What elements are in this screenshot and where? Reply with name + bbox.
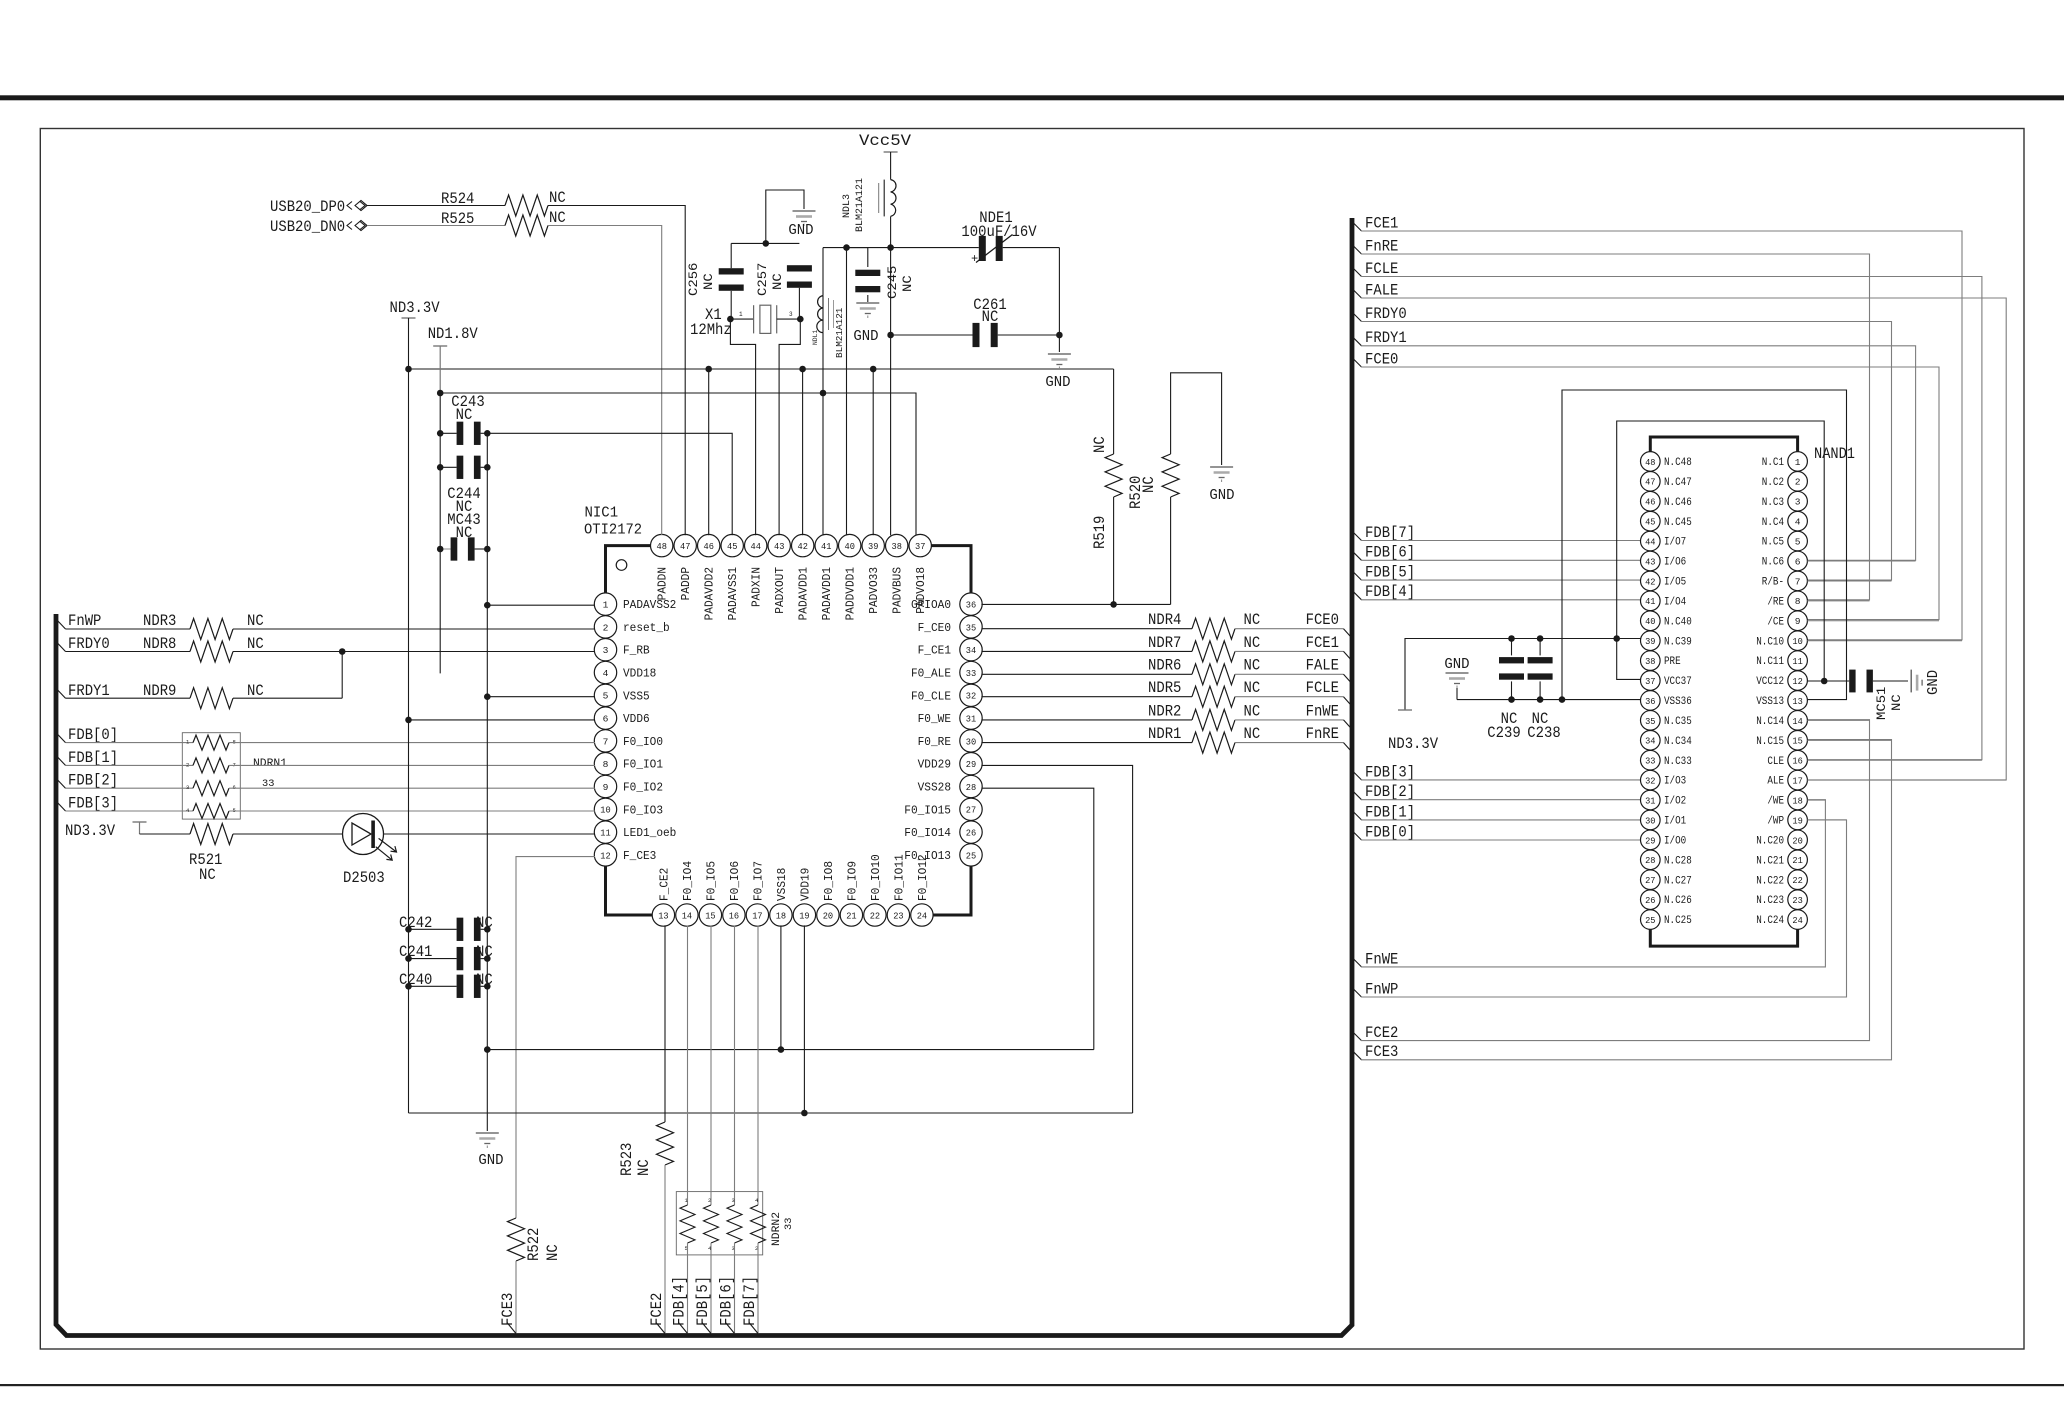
- svg-text:7: 7: [603, 736, 609, 747]
- wire NDR9 out: [233, 697, 342, 699]
- svg-text:NDR1: NDR1: [1148, 725, 1181, 743]
- wire ND3.3V vertical trunk: [408, 318, 410, 1113]
- net FRDY0 stub: [1352, 312, 1362, 322]
- svg-text:47: 47: [680, 541, 690, 552]
- net FDB[5] vertical wire: [710, 1243, 712, 1334]
- node VSS loop tap: [1559, 696, 1566, 703]
- net FDB[3] stub right: [1352, 770, 1362, 780]
- svg-text:NDR3: NDR3: [143, 612, 176, 630]
- svg-text:F0_IO14: F0_IO14: [904, 826, 951, 840]
- svg-text:26: 26: [1645, 895, 1656, 906]
- node ND1.8V rail tap: [437, 390, 444, 397]
- svg-text:NC: NC: [247, 682, 264, 700]
- svg-text:NC: NC: [1244, 657, 1261, 675]
- wire C257 bottom: [798, 288, 800, 319]
- LED D2503: [343, 814, 384, 855]
- svg-text:ND3.3V: ND3.3V: [1388, 735, 1439, 753]
- wire ND1.8V cap chain: [439, 393, 441, 673]
- wire FDB[0] to NAND: [1361, 839, 1641, 841]
- net FCE0 bus whisker: [1344, 629, 1353, 639]
- pin 20 N.C20: [1788, 830, 1808, 850]
- pin 42 PADAVDD1: [792, 534, 814, 556]
- svg-text:FDB[2]: FDB[2]: [1365, 783, 1415, 801]
- svg-text:3: 3: [789, 311, 793, 318]
- net FDB[0] stub right: [1352, 831, 1362, 841]
- svg-text:N.C28: N.C28: [1664, 855, 1692, 867]
- svg-text:32: 32: [966, 691, 977, 702]
- wire pin18 VSS18 down: [780, 925, 782, 1049]
- svg-text:F0_RE: F0_RE: [918, 735, 951, 749]
- pin 6 N.C6: [1788, 551, 1808, 571]
- net FRDY0 stub: [56, 642, 66, 652]
- wire FRDY1 loop to NAND: [1361, 346, 1916, 561]
- svg-text:FALE: FALE: [1306, 657, 1339, 675]
- svg-text:PADAVDD1: PADAVDD1: [820, 567, 834, 620]
- svg-text:FCLE: FCLE: [1365, 260, 1398, 278]
- svg-text:FDB[5]: FDB[5]: [694, 1276, 712, 1326]
- svg-text:N.C21: N.C21: [1756, 855, 1784, 867]
- svg-text:F0_IO3: F0_IO3: [623, 803, 663, 817]
- svg-text:N.C27: N.C27: [1664, 875, 1692, 887]
- capacitor C239: [1511, 639, 1513, 656]
- net FDB[6] vertical wire: [734, 1243, 736, 1334]
- node crystal pin3: [797, 316, 804, 323]
- svg-text:VSS13: VSS13: [1756, 696, 1784, 708]
- svg-text:FnWP: FnWP: [68, 612, 101, 630]
- net FCE1 stub: [1352, 222, 1362, 232]
- pin 35 F_CE0: [960, 616, 982, 638]
- pin 2 N.C2: [1788, 472, 1808, 492]
- svg-text:NC: NC: [635, 1159, 653, 1176]
- svg-text:F0_IO11: F0_IO11: [892, 854, 906, 901]
- net FDB[4] bus whisker: [679, 1323, 688, 1334]
- wire pin1 PADAVSS2: [487, 604, 595, 606]
- resistor R522: [508, 1218, 525, 1261]
- pin 27 F0_IO15: [960, 798, 982, 820]
- wire NDRN1 to pin 9: [229, 787, 595, 789]
- net FDB[2] stub right: [1352, 790, 1362, 800]
- wire LED to pin11: [384, 833, 596, 835]
- svg-text:19: 19: [1792, 815, 1803, 826]
- svg-text:2: 2: [603, 622, 609, 633]
- resistor R523: [657, 1122, 674, 1165]
- svg-text:38: 38: [1645, 656, 1656, 667]
- svg-text:NC: NC: [549, 189, 566, 207]
- net FnWP stub: [1352, 988, 1362, 998]
- svg-text:19: 19: [799, 910, 810, 921]
- svg-text:40: 40: [845, 541, 856, 552]
- pin 36 GPIOA0: [960, 593, 982, 615]
- svg-text:PADDP: PADDP: [679, 567, 693, 600]
- pin 29 VDD29: [960, 753, 982, 775]
- pin 46 PADAVDD2: [698, 534, 720, 556]
- svg-text:F0_IO0: F0_IO0: [623, 735, 663, 749]
- svg-text:8: 8: [603, 759, 609, 770]
- svg-text:NC: NC: [199, 866, 216, 884]
- resistor network NDRN2 box: [676, 1192, 762, 1255]
- svg-text:R519: R519: [1091, 516, 1109, 549]
- pin 4 N.C4: [1788, 511, 1808, 531]
- net FCE3 vertical wire: [515, 1261, 517, 1334]
- svg-text:N.C45: N.C45: [1664, 517, 1692, 529]
- pin 43 I/O6: [1641, 551, 1661, 571]
- pin 21 N.C21: [1788, 850, 1808, 870]
- net FDB[2] stub: [56, 778, 66, 788]
- node FRDY junction: [339, 648, 346, 655]
- svg-text:NC: NC: [770, 273, 785, 290]
- svg-text:29: 29: [1645, 835, 1656, 846]
- svg-text:45: 45: [1645, 517, 1656, 528]
- power terminal ND3.3V right: [1398, 709, 1412, 711]
- svg-text:GND: GND: [478, 1152, 503, 1169]
- svg-text:VCC12: VCC12: [1756, 676, 1784, 688]
- wire cap tops link: [731, 242, 799, 244]
- svg-text:10: 10: [1792, 636, 1803, 647]
- wire pin28 VSS28 loop: [981, 788, 1093, 1049]
- bus main outline: [56, 218, 1352, 1336]
- pin 48 PADDN: [651, 534, 673, 556]
- svg-text:17: 17: [1792, 776, 1802, 787]
- svg-text:13: 13: [658, 910, 669, 921]
- pin 44 PADXIN: [745, 534, 767, 556]
- svg-text:FnRE: FnRE: [1365, 237, 1398, 255]
- wire ND3.3V rail: [409, 368, 1114, 370]
- IC NIC1 body outline: [606, 546, 652, 594]
- svg-text:NC: NC: [1889, 694, 1904, 711]
- svg-text:46: 46: [704, 541, 715, 552]
- svg-text:VCC37: VCC37: [1664, 676, 1692, 688]
- wire FDB[3] to NAND: [1361, 779, 1641, 781]
- svg-text:FCE2: FCE2: [648, 1293, 666, 1326]
- wire R525 to pin48: [548, 226, 662, 536]
- pin 24 N.C24: [1788, 910, 1808, 930]
- pin 8 /RE: [1788, 591, 1808, 611]
- pin 26 F0_IO14: [960, 821, 982, 843]
- svg-text:41: 41: [821, 541, 832, 552]
- svg-text:NDR5: NDR5: [1148, 679, 1181, 697]
- wire FCE3 loop to NAND: [1361, 740, 1892, 1060]
- wire FnWE loop to NAND: [1361, 800, 1825, 967]
- svg-text:7: 7: [1795, 576, 1801, 587]
- net FDB[7] stub right: [1352, 531, 1362, 541]
- wire NDL1 through 1.8V rail to pin41: [822, 333, 824, 536]
- svg-text:I/O1: I/O1: [1664, 816, 1686, 828]
- svg-text:48: 48: [657, 541, 668, 552]
- svg-text:MC51: MC51: [1874, 686, 1889, 720]
- top title bar: [0, 95, 2064, 100]
- svg-text:F_CE3: F_CE3: [623, 849, 656, 863]
- wire C256 top: [730, 243, 732, 268]
- pin 46 N.C46: [1641, 491, 1661, 511]
- ground right of C261: [1048, 353, 1071, 355]
- pin 36 VSS36: [1641, 691, 1661, 711]
- pin 26 N.C26: [1641, 890, 1661, 910]
- svg-text:/WP: /WP: [1767, 816, 1784, 828]
- svg-text:N.C26: N.C26: [1664, 895, 1692, 907]
- svg-text:38: 38: [892, 541, 903, 552]
- svg-text:I/O0: I/O0: [1664, 835, 1686, 847]
- svg-text:34: 34: [1645, 736, 1656, 747]
- svg-text:PADVO18: PADVO18: [914, 567, 928, 614]
- pin 16 CLE: [1788, 750, 1808, 770]
- svg-text:N.C4: N.C4: [1762, 517, 1784, 529]
- svg-text:17: 17: [752, 910, 762, 921]
- svg-text:GND: GND: [1925, 670, 1942, 695]
- pin 5 VSS5: [594, 684, 616, 706]
- svg-text:FCLE: FCLE: [1306, 679, 1339, 697]
- svg-text:VSS28: VSS28: [918, 781, 951, 795]
- svg-text:PADVBUS: PADVBUS: [891, 567, 905, 614]
- svg-text:I/O5: I/O5: [1664, 577, 1686, 589]
- wire R524 to pin47: [548, 206, 685, 536]
- svg-text:11: 11: [600, 828, 611, 839]
- svg-text:N.C22: N.C22: [1756, 875, 1784, 887]
- pin 32 I/O3: [1641, 770, 1661, 790]
- svg-text:N.C24: N.C24: [1756, 915, 1784, 927]
- svg-text:9: 9: [1795, 616, 1801, 627]
- svg-text:FDB[7]: FDB[7]: [741, 1276, 759, 1326]
- wire node to C245: [847, 248, 868, 267]
- pin 23 N.C23: [1788, 890, 1808, 910]
- svg-text:I/O4: I/O4: [1664, 596, 1686, 608]
- svg-text:36: 36: [1645, 696, 1656, 707]
- svg-text:FCE1: FCE1: [1365, 214, 1398, 232]
- svg-text:NC: NC: [1140, 476, 1158, 493]
- wire to top ground: [766, 190, 804, 243]
- svg-text:N.C20: N.C20: [1756, 835, 1784, 847]
- wire C245 to ground: [867, 295, 869, 302]
- net FCLE bus whisker: [1344, 697, 1353, 707]
- pin 13 VSS13: [1788, 691, 1808, 711]
- svg-text:PRE: PRE: [1664, 656, 1681, 668]
- net FCE3 stub: [1352, 1050, 1362, 1060]
- svg-text:27: 27: [966, 805, 976, 816]
- svg-text:22: 22: [870, 910, 881, 921]
- capacitor C244: [440, 466, 456, 468]
- svg-text:GND: GND: [788, 222, 813, 239]
- net FDB[4] vertical wire: [687, 1243, 689, 1334]
- pin 47 N.C47: [1641, 472, 1661, 492]
- svg-text:FnWP: FnWP: [1365, 980, 1398, 998]
- svg-text:N.C40: N.C40: [1664, 616, 1692, 628]
- pin 5 N.C5: [1788, 531, 1808, 551]
- wire FCE2 loop to NAND: [1361, 720, 1870, 1041]
- pin 42 I/O5: [1641, 571, 1661, 591]
- svg-text:48: 48: [1645, 457, 1656, 468]
- svg-text:GND: GND: [1209, 487, 1234, 504]
- pin 33 N.C33: [1641, 750, 1661, 770]
- svg-text:ND3.3V: ND3.3V: [65, 822, 116, 840]
- pin 9 /CE: [1788, 611, 1808, 631]
- pin 15 N.C15: [1788, 730, 1808, 750]
- net FCE1 bus whisker: [1344, 651, 1353, 661]
- svg-text:NDR9: NDR9: [143, 682, 176, 700]
- svg-text:FDB[6]: FDB[6]: [718, 1276, 736, 1326]
- net FDB[0] stub: [56, 733, 66, 743]
- pin 10 N.C10: [1788, 631, 1808, 651]
- svg-text:47: 47: [1645, 477, 1655, 488]
- svg-text:2: 2: [708, 1197, 711, 1204]
- pin 15 F0_IO5: [699, 904, 721, 926]
- svg-text:1: 1: [1795, 457, 1801, 468]
- svg-text:F0_IO6: F0_IO6: [728, 861, 742, 901]
- svg-text:NC: NC: [549, 209, 566, 227]
- pin 1 N.C1: [1788, 452, 1808, 472]
- svg-text:6: 6: [603, 714, 609, 725]
- pin 12 VCC12: [1788, 671, 1808, 691]
- svg-text:NC: NC: [1244, 634, 1261, 652]
- resistor R519: [1113, 369, 1115, 454]
- net FDB[3] stub: [56, 801, 66, 811]
- svg-text:F0_IO15: F0_IO15: [904, 803, 951, 817]
- pin 45 PADAVSS1: [721, 534, 743, 556]
- svg-text:N.C48: N.C48: [1664, 457, 1692, 469]
- svg-text:20: 20: [823, 910, 834, 921]
- node VCC12 junction: [1821, 678, 1828, 685]
- svg-text:N.C15: N.C15: [1756, 736, 1784, 748]
- wire pin5 VSS5: [487, 696, 595, 698]
- svg-text:FDB[4]: FDB[4]: [671, 1276, 689, 1326]
- svg-text:33: 33: [1645, 756, 1656, 767]
- pin 30 I/O1: [1641, 810, 1661, 830]
- svg-text:PADVO33: PADVO33: [867, 567, 881, 614]
- node pin18 tie: [778, 1046, 785, 1053]
- svg-text:9: 9: [603, 782, 609, 793]
- svg-text:NDRN2: NDRN2: [771, 1212, 783, 1246]
- net FDB[7] bus whisker: [749, 1323, 758, 1334]
- svg-text:33: 33: [966, 668, 977, 679]
- wire XIN to pin44: [730, 319, 755, 535]
- pin 31 F0_WE: [960, 707, 982, 729]
- svg-text:F0_IO9: F0_IO9: [845, 861, 859, 901]
- svg-text:C256: C256: [686, 263, 701, 296]
- svg-text:5: 5: [1795, 536, 1801, 547]
- svg-text:24: 24: [917, 910, 928, 921]
- svg-text:PADDVDD1: PADDVDD1: [844, 567, 858, 620]
- svg-text:18: 18: [1792, 795, 1803, 806]
- net FnWE bus whisker: [1344, 720, 1353, 730]
- wire FALE loop to NAND: [1361, 298, 2006, 780]
- svg-text:8: 8: [1795, 596, 1801, 607]
- svg-text:C238: C238: [1527, 724, 1560, 742]
- svg-text:/WE: /WE: [1767, 796, 1784, 808]
- svg-text:43: 43: [774, 541, 785, 552]
- svg-text:42: 42: [1645, 576, 1656, 587]
- svg-text:43: 43: [1645, 556, 1656, 567]
- pin 22 F0_IO10: [864, 904, 886, 926]
- svg-text:NC: NC: [1244, 702, 1261, 720]
- svg-text:16: 16: [1792, 756, 1803, 767]
- svg-text:FCE2: FCE2: [1365, 1024, 1398, 1042]
- pin 47 PADDP: [674, 534, 696, 556]
- svg-text:PADXIN: PADXIN: [750, 567, 764, 607]
- wire FRDY0 loop to NAND: [1361, 322, 1892, 581]
- wire FDB[3] to NDRN1: [66, 810, 194, 812]
- svg-text:2: 2: [186, 761, 189, 768]
- svg-text:27: 27: [1645, 875, 1655, 886]
- svg-text:NC: NC: [247, 612, 264, 630]
- svg-text:3: 3: [1795, 497, 1801, 508]
- pin 40 N.C40: [1641, 611, 1661, 631]
- svg-text:NDR8: NDR8: [143, 635, 176, 653]
- svg-text:FRDY0: FRDY0: [68, 635, 110, 653]
- pin 3 F_RB: [594, 639, 616, 661]
- wire pin36 GPIOA0: [981, 603, 1170, 605]
- node 3.3V VCC tap: [1613, 635, 1620, 642]
- svg-text:NC: NC: [247, 635, 264, 653]
- pin 11 LED1_oeb: [594, 821, 616, 843]
- svg-text:1: 1: [603, 600, 609, 611]
- pin 13 F_CE2: [652, 904, 674, 926]
- wire right column pin taps: [1807, 560, 1915, 562]
- wire VCC net rectangle: [1617, 421, 1825, 681]
- svg-text:36: 36: [966, 600, 977, 611]
- net FDB[4] stub right: [1352, 590, 1362, 600]
- node pin6 tie: [405, 717, 412, 724]
- svg-text:20: 20: [1792, 835, 1803, 846]
- svg-text:NDRN1: NDRN1: [253, 758, 287, 770]
- svg-text:46: 46: [1645, 497, 1656, 508]
- svg-text:FDB[0]: FDB[0]: [1365, 823, 1415, 841]
- wire NDRN1 to pin 10: [229, 810, 595, 812]
- svg-text:3: 3: [186, 784, 189, 791]
- net FALE bus whisker: [1344, 674, 1353, 684]
- pin 31 I/O2: [1641, 790, 1661, 810]
- node crystal pin1: [727, 316, 734, 323]
- svg-text:FRDY1: FRDY1: [68, 682, 110, 700]
- svg-text:3: 3: [732, 1197, 735, 1204]
- svg-text:45: 45: [727, 541, 738, 552]
- svg-text:3: 3: [603, 645, 609, 656]
- ground below C245: [856, 302, 879, 304]
- svg-text:14: 14: [682, 910, 693, 921]
- svg-text:VDD29: VDD29: [918, 758, 951, 772]
- svg-text:21: 21: [846, 910, 857, 921]
- svg-text:35: 35: [966, 622, 977, 633]
- wire pin19 VDD19 down: [803, 925, 805, 1113]
- svg-text:N.C39: N.C39: [1664, 636, 1692, 648]
- svg-text:USB20_DP0: USB20_DP0: [270, 198, 345, 216]
- svg-text:Vcc5V: Vcc5V: [859, 132, 912, 150]
- svg-text:F_CE1: F_CE1: [918, 644, 951, 658]
- wire pin14 down to NDRN2: [687, 925, 689, 1205]
- svg-text:31: 31: [966, 714, 977, 725]
- wire to NDL1 top: [822, 248, 824, 296]
- wire pin16 down to NDRN2: [734, 925, 736, 1205]
- ground top of crystal: [793, 210, 816, 212]
- wire NDR3 to pin2: [233, 628, 595, 630]
- pin 22 N.C22: [1788, 870, 1808, 890]
- svg-text:F_CE2: F_CE2: [657, 868, 671, 901]
- svg-text:FnRE: FnRE: [1306, 725, 1339, 743]
- resistor R520: [1170, 497, 1172, 604]
- pin 14 F0_IO4: [676, 904, 698, 926]
- wire ND1.8V rail to pin37: [440, 393, 916, 535]
- pin 41 I/O4: [1641, 591, 1661, 611]
- wire XOUT to pin43: [779, 319, 800, 535]
- svg-text:FDB[7]: FDB[7]: [1365, 524, 1415, 542]
- svg-text:NC: NC: [1244, 725, 1261, 743]
- svg-text:37: 37: [1645, 676, 1655, 687]
- pin 12 F_CE3: [594, 844, 616, 866]
- svg-text:14: 14: [1792, 716, 1803, 727]
- net FALE stub: [1352, 289, 1362, 299]
- svg-text:FDB[2]: FDB[2]: [68, 772, 118, 790]
- svg-text:LED1_oeb: LED1_oeb: [623, 826, 676, 840]
- node cap link mid: [763, 240, 770, 247]
- net FCE2 vertical wire: [664, 1165, 666, 1334]
- svg-text:FRDY0: FRDY0: [1365, 305, 1407, 323]
